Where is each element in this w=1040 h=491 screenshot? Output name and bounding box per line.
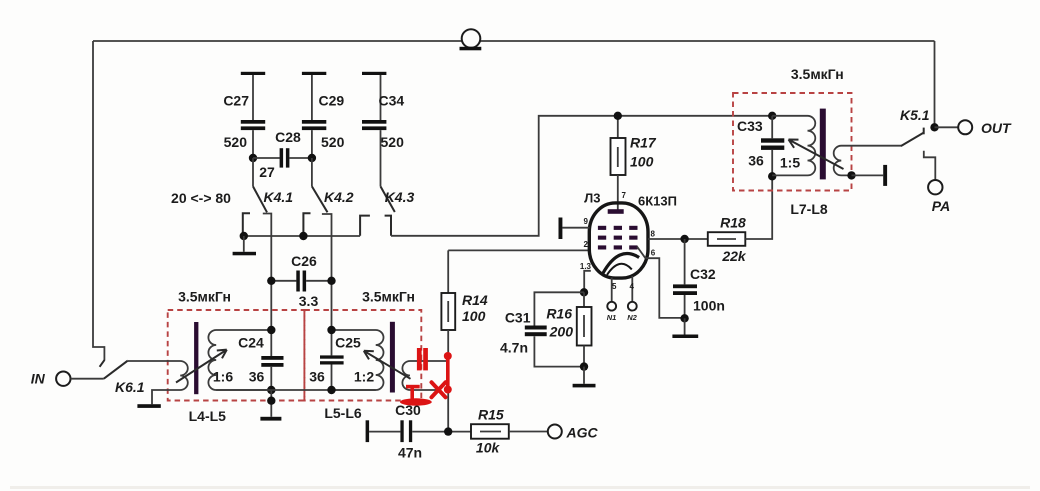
red annotation capacitor bbox=[417, 348, 422, 370]
svg-text:6: 6 bbox=[651, 249, 656, 258]
arrow variable L5-L6 bbox=[364, 351, 411, 379]
switch K4.1 bbox=[253, 158, 293, 212]
capacitor C33 bbox=[737, 116, 784, 177]
svg-text:L4-L5: L4-L5 bbox=[189, 408, 227, 424]
arrow variable L4-L5 bbox=[176, 350, 227, 383]
capacitor C24 bbox=[213, 330, 284, 390]
svg-text:4.7n: 4.7n bbox=[500, 340, 528, 356]
node C30/R14/R15 bbox=[444, 427, 452, 435]
svg-text:3.5мкГн: 3.5мкГн bbox=[362, 289, 415, 305]
svg-text:100n: 100n bbox=[693, 298, 725, 314]
wire K4.3 to anode rail riser bbox=[391, 116, 772, 236]
node C27/C28 bbox=[249, 154, 257, 162]
dashed band box L5-L6 bbox=[304, 310, 421, 401]
lamp feedthrough on top rail bbox=[460, 29, 482, 50]
red annotation ground bbox=[400, 385, 432, 406]
svg-text:100: 100 bbox=[462, 308, 486, 324]
node pin8/C32 bbox=[680, 235, 688, 243]
node L5 tank top bbox=[327, 326, 335, 334]
chassis bar L8 bbox=[852, 165, 888, 186]
capacitor C31 bbox=[500, 292, 584, 366]
terminal OUT bbox=[935, 120, 1013, 136]
resistor R16 bbox=[546, 292, 591, 366]
svg-text:520: 520 bbox=[224, 134, 248, 150]
svg-text:R15: R15 bbox=[478, 407, 504, 423]
svg-text:22k: 22k bbox=[721, 248, 747, 264]
contact K4.3 left bbox=[360, 216, 370, 236]
svg-text:C33: C33 bbox=[737, 118, 763, 134]
svg-text:520: 520 bbox=[321, 134, 345, 150]
svg-text:C28: C28 bbox=[275, 129, 301, 145]
svg-text:C27: C27 bbox=[223, 93, 249, 109]
transformer L7-L8 core bbox=[820, 109, 826, 180]
svg-text:2: 2 bbox=[584, 240, 589, 249]
contact K4.1 left bbox=[243, 213, 250, 236]
tube cathode heater arcs bbox=[603, 254, 639, 274]
svg-text:C25: C25 bbox=[335, 335, 361, 351]
inductor L5b left winding bbox=[332, 330, 384, 390]
capacitor C28 bbox=[253, 129, 312, 180]
ground C32 bbox=[672, 318, 698, 338]
node cathode ground bbox=[580, 362, 588, 370]
svg-text:7: 7 bbox=[622, 191, 627, 200]
wire grid pin2 to R14 bbox=[448, 249, 589, 251]
svg-text:3.5мкГн: 3.5мкГн bbox=[791, 66, 844, 82]
svg-text:L7-L8: L7-L8 bbox=[790, 201, 828, 217]
capacitor C30 bbox=[366, 402, 471, 461]
pin 6 wire bbox=[637, 247, 685, 318]
svg-text:K5.1: K5.1 bbox=[900, 107, 930, 123]
svg-text:C26: C26 bbox=[291, 253, 317, 269]
tube grid bars bbox=[598, 226, 638, 250]
svg-text:1:6: 1:6 bbox=[213, 369, 233, 385]
resistor R14 bbox=[441, 250, 487, 431]
svg-text:47n: 47n bbox=[398, 445, 422, 461]
terminal IN bbox=[31, 371, 104, 387]
terminal AGC bbox=[548, 425, 599, 441]
svg-text:8: 8 bbox=[651, 230, 656, 239]
node L8 bottom bbox=[847, 171, 855, 179]
svg-text:C34: C34 bbox=[379, 93, 405, 109]
svg-text:OUT: OUT bbox=[981, 120, 1012, 136]
node C29/C28 bbox=[308, 154, 316, 162]
resistor R17 bbox=[611, 116, 657, 210]
svg-text:520: 520 bbox=[381, 134, 405, 150]
pin 8 wire bbox=[648, 230, 708, 240]
contact K4.2 right / wire to C26 right bbox=[322, 214, 332, 330]
wire ground bus bbox=[241, 235, 360, 237]
svg-text:C24: C24 bbox=[238, 335, 264, 351]
pin 9 wire and chassis bar bbox=[559, 217, 590, 239]
svg-text:10k: 10k bbox=[476, 440, 501, 456]
node C33 top bbox=[768, 112, 776, 120]
arrow variable L7-L8 bbox=[789, 140, 844, 170]
node K5.1 bbox=[930, 123, 938, 131]
capacitor C34 bbox=[362, 72, 404, 187]
ground tank bbox=[260, 390, 281, 421]
inductor L8 winding bbox=[834, 146, 902, 176]
svg-text:1.3: 1.3 bbox=[580, 262, 592, 271]
svg-text:K4.2: K4.2 bbox=[324, 189, 354, 205]
svg-text:K4.3: K4.3 bbox=[385, 189, 415, 205]
svg-text:PA: PA bbox=[932, 198, 950, 214]
svg-text:9: 9 bbox=[584, 217, 589, 226]
svg-text:R14: R14 bbox=[462, 292, 488, 308]
svg-text:4: 4 bbox=[630, 282, 635, 291]
svg-text:R16: R16 bbox=[546, 306, 572, 322]
switch K4.3 bbox=[381, 186, 415, 212]
svg-text:N1: N1 bbox=[607, 313, 617, 322]
wire tank bottom bus bbox=[216, 389, 376, 391]
svg-text:5: 5 bbox=[612, 282, 617, 291]
svg-text:C32: C32 bbox=[690, 266, 716, 282]
svg-text:1:2: 1:2 bbox=[354, 369, 374, 385]
contact K4.1 right / wire to C26 left bbox=[263, 214, 272, 331]
node C32 bottom bbox=[680, 314, 688, 322]
wire right rail down to K5.1 bbox=[934, 41, 936, 127]
svg-text:Л3: Л3 bbox=[584, 191, 600, 206]
node ground bus K4.1 bbox=[240, 232, 248, 240]
inductor L5 secondary winding bbox=[208, 330, 271, 390]
node anode rail R17 bbox=[614, 112, 622, 120]
svg-text:AGC: AGC bbox=[566, 425, 599, 441]
svg-text:C30: C30 bbox=[395, 402, 421, 418]
svg-text:36: 36 bbox=[748, 153, 764, 169]
ground cathode bbox=[573, 367, 596, 388]
red annotation X cut mark bbox=[432, 382, 446, 397]
transformer L5-L6 core bbox=[390, 322, 395, 393]
svg-text:6К13П: 6К13П bbox=[638, 194, 677, 209]
contact K4.2 left bbox=[303, 213, 310, 236]
node on dashed border bbox=[267, 397, 275, 405]
switch K6.1 bbox=[100, 360, 145, 395]
svg-text:36: 36 bbox=[249, 369, 265, 385]
inductor L7 winding bbox=[772, 116, 815, 176]
svg-text:3.5мкГн: 3.5мкГн bbox=[178, 289, 231, 305]
capacitor C27 bbox=[223, 72, 265, 158]
svg-text:K6.1: K6.1 bbox=[115, 379, 145, 395]
svg-text:L5-L6: L5-L6 bbox=[324, 405, 362, 421]
pins 5 4 heater stubs bbox=[607, 276, 638, 322]
svg-text:R18: R18 bbox=[720, 215, 746, 231]
svg-text:R17: R17 bbox=[630, 135, 657, 151]
capacitor C25 bbox=[309, 330, 374, 390]
dashed band box L4-L5 bbox=[168, 310, 305, 401]
dashed band box L7-L8 bbox=[733, 93, 852, 191]
svg-text:IN: IN bbox=[31, 371, 46, 387]
tube U1 envelope bbox=[589, 203, 648, 278]
capacitor C26 bbox=[271, 253, 331, 309]
node C26 right bbox=[327, 277, 335, 285]
svg-text:27: 27 bbox=[259, 164, 275, 180]
svg-text:3.3: 3.3 bbox=[299, 293, 319, 309]
pin 1,3 cathode wire bbox=[580, 262, 592, 292]
red annotation jumper wire bbox=[444, 352, 452, 394]
contact K4.3 right bbox=[385, 216, 391, 236]
node L4 tank top bbox=[267, 326, 275, 334]
node L5 tank bottom bbox=[327, 386, 335, 394]
svg-text:C29: C29 bbox=[319, 93, 345, 109]
bottom scan artifact band bbox=[10, 486, 1030, 489]
node C33 bottom bbox=[768, 172, 776, 180]
node ground bus K4.2 bbox=[299, 232, 307, 240]
terminal PA bbox=[924, 151, 950, 214]
svg-text:100: 100 bbox=[630, 154, 654, 170]
svg-text:N2: N2 bbox=[627, 313, 637, 322]
svg-text:200: 200 bbox=[549, 324, 574, 340]
switch K4.2 bbox=[312, 158, 354, 212]
ground L4 primary bbox=[137, 404, 160, 408]
svg-text:1:5: 1:5 bbox=[780, 155, 800, 171]
inductor L4 primary winding bbox=[128, 361, 188, 404]
switch K5.1 bbox=[900, 107, 930, 146]
node cathode bbox=[580, 288, 588, 296]
transformer L4-L5 core bbox=[194, 322, 198, 394]
resistor R15 bbox=[471, 407, 548, 456]
svg-text:C31: C31 bbox=[505, 310, 531, 326]
inductor L6 right winding bbox=[402, 361, 448, 390]
svg-text:36: 36 bbox=[309, 369, 325, 385]
node L4 tank bottom bbox=[267, 386, 275, 394]
resistor R18 bbox=[708, 176, 772, 264]
node C26 left bbox=[267, 277, 275, 285]
ground bus symbol bbox=[233, 236, 256, 255]
capacitor C29 bbox=[302, 72, 345, 158]
svg-text:20 <-> 80: 20 <-> 80 bbox=[171, 190, 231, 206]
capacitor C32 bbox=[673, 239, 725, 318]
svg-text:K4.1: K4.1 bbox=[264, 189, 294, 205]
wire top rail bbox=[93, 40, 935, 42]
wire left rail down to K6.1 bbox=[93, 41, 104, 360]
